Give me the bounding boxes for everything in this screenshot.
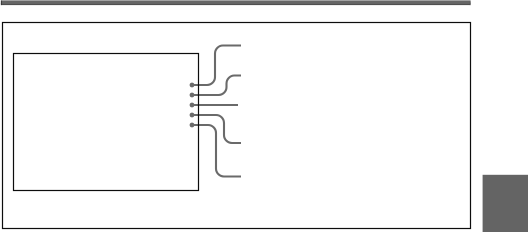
wire 3 <box>192 104 238 106</box>
node 3 <box>190 103 195 108</box>
component box <box>14 54 199 191</box>
wire 4 <box>192 115 241 143</box>
node 1 <box>190 83 195 88</box>
top bar right edge <box>469 2 472 6</box>
outer frame <box>3 23 471 229</box>
node 5 <box>190 123 195 128</box>
wire 2 <box>192 76 241 96</box>
node 2 <box>190 93 195 98</box>
top bar <box>1 0 471 4</box>
top bar bottom edge <box>1 3 471 5</box>
wire 1 <box>192 46 241 86</box>
top bar left edge <box>0 0 3 5</box>
wire 5 <box>192 125 241 177</box>
node 4 <box>190 113 195 118</box>
bottom-right square <box>483 175 528 232</box>
